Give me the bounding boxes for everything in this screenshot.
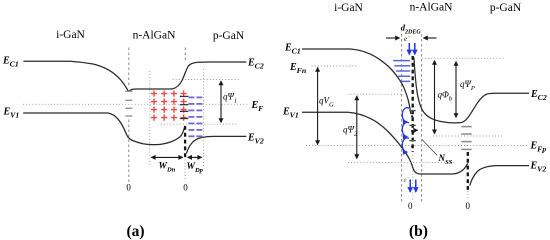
interface trap dashes at n-AlGaN/p-GaN junction (a) — [180, 96, 189, 118]
thick dashed n-AlGaN/p-GaN junction plane (b) — [467, 152, 469, 190]
double arrow q*Psi_2 (b) — [356, 96, 358, 159]
thick dashed junction charge plane (a) — [184, 126, 186, 159]
svg-text:i-GaN: i-GaN — [334, 2, 363, 14]
dashed line i-GaN/n-AlGaN interface (a) — [128, 48, 130, 87]
svg-text:(a): (a) — [126, 223, 144, 240]
svg-text:0: 0 — [183, 183, 188, 193]
2DEG electron fill dashes (b) — [393, 61, 410, 82]
svg-text:n-AlGaN: n-AlGaN — [410, 2, 453, 14]
double arrow W_Dp (a) — [188, 156, 202, 158]
svg-text:n-AlGaN: n-AlGaN — [133, 30, 176, 42]
conduction band rise to E_C2 (a) — [172, 62, 246, 89]
interface state dashes at i-GaN/n-AlGaN interface (a) — [125, 91, 132, 116]
trap state dashes at junction (b) — [409, 111, 416, 141]
valence band rise to E_V2 in p-GaN (a) — [186, 136, 246, 153]
dotted axis continuation below junction (a) — [184, 160, 186, 182]
conduction band curve E_C1 to well (a) — [23, 61, 172, 91]
dotted Fermi level E_F (a) — [23, 103, 250, 105]
panel (a) group — [2, 29, 264, 240]
dotted reference line lower (a) — [161, 123, 239, 125]
svg-text:(b): (b) — [409, 223, 428, 240]
valence band E_V1 descending (b) — [302, 112, 468, 174]
double arrow qV_G (b) — [317, 68, 319, 145]
dashed line right of 2DEG (b) — [421, 34, 423, 202]
thick dashed i-GaN/n-AlGaN junction plane (b) — [412, 56, 414, 152]
dotted depletion edge W_Dp right (a) — [203, 69, 205, 166]
dotted axis continuation below junction (b) — [412, 155, 414, 200]
conduction band AlGaN barrier and rise to E_C2 (b) — [414, 58, 529, 123]
svg-text:i-GaN: i-GaN — [56, 29, 85, 41]
dashed line left of 2DEG (b) — [401, 34, 403, 202]
dotted axis continuation below n/p junction (b) — [467, 191, 469, 200]
double arrow q*Phi_b (b) — [434, 61, 436, 134]
dotted depletion edge W_Dn left (a) — [149, 71, 151, 166]
dotted reference line upper (a) — [173, 79, 239, 81]
acceptor state dashes near n/p junction (b) — [461, 127, 471, 150]
valence band curve E_V1 to well (a) — [23, 113, 157, 145]
valence band rise to E_V2 in p-GaN (b) — [470, 166, 529, 186]
arrow pointing right toward d_2DEG (b) — [386, 37, 400, 39]
double arrow q*Psi_P (b) — [455, 62, 457, 118]
dashed line n-AlGaN/p-GaN interface upper (a) — [184, 48, 186, 63]
dotted Fermi reference top right (b) — [422, 57, 505, 59]
ionized acceptor dashes in depleted p-GaN (a) — [188, 97, 202, 136]
trap dots on junction plane (b) — [411, 115, 413, 147]
double arrow q*Psi_1 (a) — [220, 81, 222, 123]
panel (b) group — [282, 2, 547, 240]
arrow pointing left toward d_2DEG (b) — [424, 37, 437, 39]
svg-text:0: 0 — [408, 201, 413, 211]
callout line from N_SS to trap states (b) — [422, 140, 437, 156]
svg-text:p-GaN: p-GaN — [490, 2, 522, 14]
valence band spike at n-AlGaN/p-GaN junction (a) — [157, 126, 185, 145]
blue electron escape arrows bottom (b) — [410, 180, 416, 193]
dashed line i/n interface lower part (a) — [128, 120, 130, 183]
double arrow W_Dn (a) — [151, 156, 182, 158]
blue electron arrows into 2DEG (b) — [409, 43, 415, 55]
blue hole emission arcs at junction (b) — [402, 108, 409, 152]
svg-text:0: 0 — [465, 201, 470, 211]
dotted reference for q*Psi_2 top (b) — [348, 93, 404, 95]
dotted E_Fn line (b) — [312, 65, 359, 67]
conduction band E_C1 descending to 2DEG notch (b) — [302, 49, 411, 114]
ionized donor plus symbols in depleted n-AlGaN (a) — [151, 91, 187, 121]
dotted reference for q*Psi_2 bottom (b) — [348, 162, 455, 164]
svg-text:0: 0 — [126, 183, 131, 193]
small arrow hole emission to the right (b) — [414, 129, 418, 131]
dotted reference mid right (b) — [433, 135, 504, 137]
svg-text:p-GaN: p-GaN — [213, 30, 245, 42]
dotted E_Fp line (b) — [306, 145, 529, 147]
